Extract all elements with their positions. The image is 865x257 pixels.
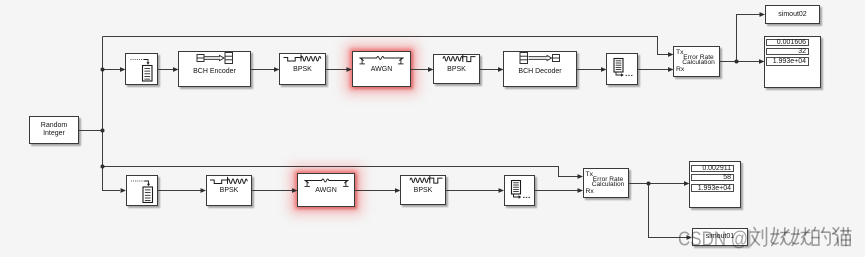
svg-text:CSDN @: CSDN @ xyxy=(678,228,748,250)
